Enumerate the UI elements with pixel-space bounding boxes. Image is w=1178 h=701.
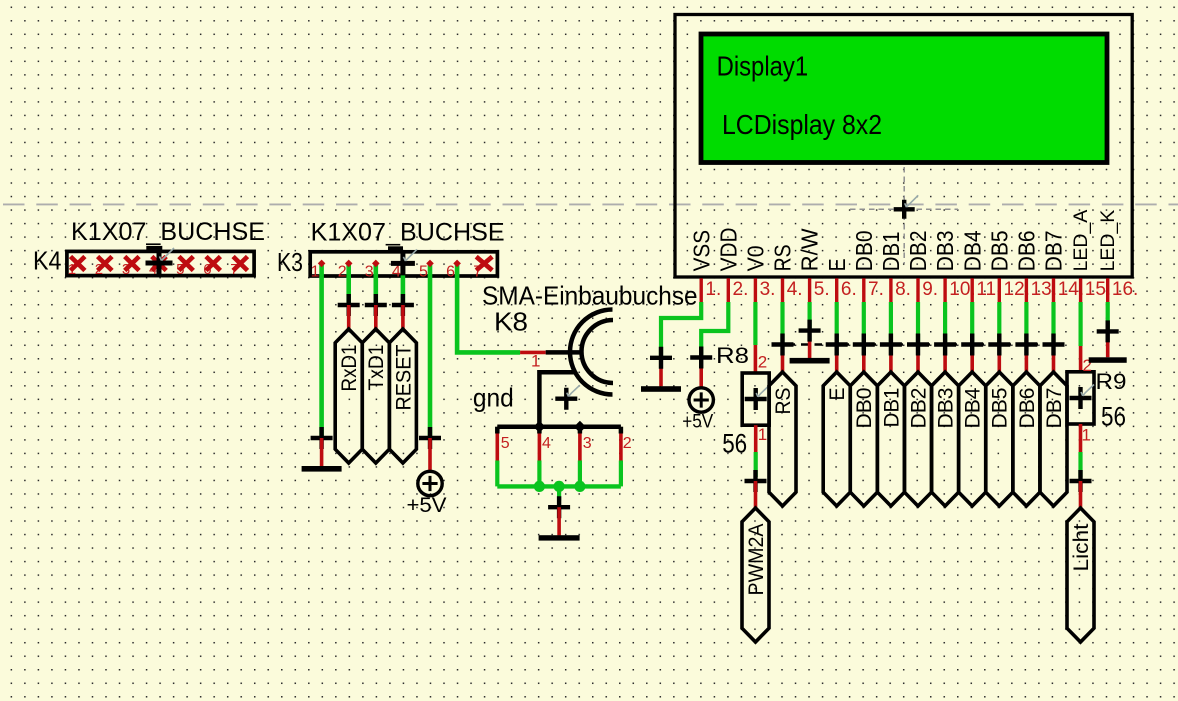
svg-text:2.: 2. [733,279,749,300]
svg-text:3: 3 [583,435,592,452]
svg-text:DB0: DB0 [851,230,877,271]
svg-text:DB5: DB5 [989,388,1012,429]
svg-text:K1X07_BUCHSE: K1X07_BUCHSE [311,219,505,247]
svg-text:5.: 5. [814,279,830,300]
svg-text:1: 1 [1082,426,1091,445]
svg-text:RS: RS [772,388,795,415]
svg-text:VSS: VSS [688,230,714,271]
svg-text:DB6: DB6 [1016,388,1039,429]
svg-text:V0: V0 [743,245,769,271]
svg-text:DB3: DB3 [932,230,958,271]
svg-text:DB0: DB0 [853,388,876,429]
svg-text:4: 4 [542,435,551,452]
svg-text:1.: 1. [705,279,721,300]
svg-text:K4: K4 [33,246,62,276]
svg-text:K1X07_BUCHSE: K1X07_BUCHSE [71,218,265,246]
svg-text:1: 1 [758,425,767,444]
svg-text:DB6: DB6 [1014,230,1040,271]
svg-text:5: 5 [501,435,510,452]
svg-text:DB4: DB4 [959,230,985,271]
svg-text:6.: 6. [841,279,857,300]
svg-text:16.: 16. [1112,279,1138,300]
svg-text:LED_A: LED_A [1070,210,1092,272]
svg-text:LED_K: LED_K [1097,210,1119,272]
svg-text:7.: 7. [868,279,884,300]
svg-text:DB1: DB1 [880,388,903,428]
svg-text:DB7: DB7 [1043,388,1066,429]
svg-text:K3: K3 [277,247,303,277]
svg-text:2: 2 [758,353,767,372]
svg-text:56: 56 [1101,402,1126,432]
svg-text:DB4: DB4 [962,387,985,428]
svg-text:PWM2A: PWM2A [745,524,768,596]
svg-text:DB7: DB7 [1041,230,1067,271]
svg-text:E: E [826,388,849,401]
svg-text:RESET: RESET [392,344,415,410]
svg-text:Display1: Display1 [717,51,809,82]
svg-text:+5V: +5V [407,493,448,517]
svg-text:R/W: R/W [797,228,823,271]
svg-text:RS: RS [770,244,796,271]
svg-text:R8: R8 [716,343,749,368]
svg-text:VDD: VDD [715,227,741,271]
svg-text:DB2: DB2 [907,388,930,429]
svg-text:DB5: DB5 [986,230,1012,271]
svg-text:8.: 8. [895,279,911,300]
svg-text:1: 1 [311,264,320,281]
svg-text:K8: K8 [494,307,528,337]
svg-text:E: E [824,258,850,271]
svg-text:gnd: gnd [473,383,514,413]
svg-text:1: 1 [531,352,540,371]
svg-text:DB1: DB1 [878,231,904,271]
svg-text:RxD1: RxD1 [338,345,361,392]
svg-text:R9: R9 [1096,369,1127,394]
svg-text:56: 56 [722,428,747,458]
svg-text:DB3: DB3 [935,388,958,429]
svg-text:3.: 3. [760,279,776,300]
svg-text:DB2: DB2 [905,230,931,271]
svg-text:3: 3 [365,264,374,281]
svg-text:Licht: Licht [1070,523,1093,571]
svg-text:5: 5 [419,264,428,281]
svg-text:9.: 9. [922,279,938,300]
svg-text:+5V: +5V [682,412,713,433]
svg-text:TxD1: TxD1 [365,345,388,391]
svg-text:6: 6 [446,264,455,281]
svg-text:2: 2 [623,435,632,452]
svg-text:4: 4 [392,264,401,281]
svg-text:4.: 4. [787,279,803,300]
svg-text:LCDisplay 8x2: LCDisplay 8x2 [722,109,882,140]
svg-text:2: 2 [338,264,347,281]
